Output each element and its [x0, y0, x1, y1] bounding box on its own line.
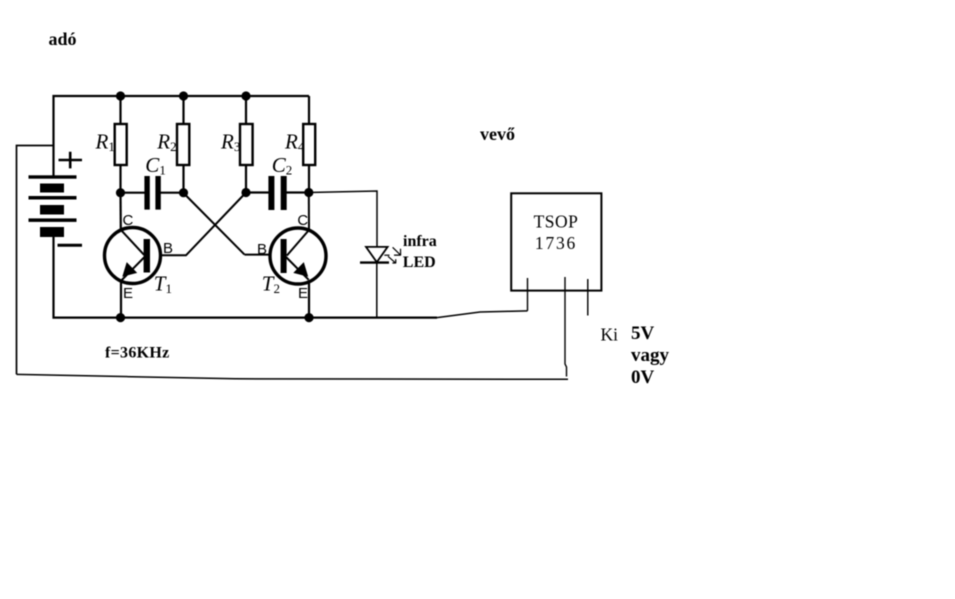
- svg-text:C: C: [123, 212, 134, 229]
- svg-text:Ki: Ki: [601, 325, 619, 345]
- svg-text:1736: 1736: [535, 233, 577, 253]
- svg-text:adó: adó: [49, 29, 77, 49]
- svg-text:R4: R4: [284, 130, 305, 155]
- svg-text:T1: T1: [154, 272, 172, 297]
- svg-text:R3: R3: [220, 130, 240, 155]
- svg-text:C1: C1: [145, 153, 166, 178]
- svg-text:B: B: [257, 241, 267, 258]
- svg-text:TSOP: TSOP: [534, 211, 579, 231]
- svg-text:f=36KHz: f=36KHz: [105, 345, 170, 362]
- svg-text:5V: 5V: [631, 323, 655, 344]
- svg-text:E: E: [298, 285, 308, 302]
- svg-text:R1: R1: [95, 130, 115, 155]
- svg-text:B: B: [163, 240, 173, 257]
- svg-text:infra: infra: [403, 233, 437, 250]
- svg-text:vagy: vagy: [631, 345, 670, 366]
- svg-text:0V: 0V: [631, 367, 655, 388]
- svg-text:LED: LED: [403, 254, 436, 271]
- svg-text:vevő: vevő: [480, 124, 515, 144]
- svg-text:C: C: [297, 212, 308, 229]
- svg-text:R2: R2: [156, 130, 176, 155]
- svg-text:E: E: [123, 285, 133, 302]
- svg-text:C2: C2: [272, 153, 293, 178]
